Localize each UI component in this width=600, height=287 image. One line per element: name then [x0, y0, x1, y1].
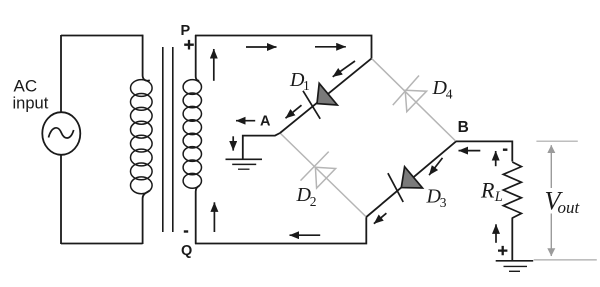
node A wire to ground: [243, 133, 280, 159]
current arrow B leftward: [459, 150, 481, 152]
terminal Q label: [181, 232, 192, 260]
current arrow up at RL bottom: [495, 224, 497, 243]
current arrow into D1: [333, 61, 355, 77]
label Vout: [545, 186, 581, 217]
wire node B to load: [456, 141, 512, 161]
svg-text:out: out: [558, 198, 581, 217]
current arrow up at RL top: [495, 151, 497, 166]
ground at load: [496, 261, 534, 272]
polarity minus at load top: [503, 148, 508, 150]
svg-text:AC: AC: [14, 77, 38, 96]
current arrow top wire 2: [315, 46, 346, 48]
svg-text:1: 1: [303, 78, 310, 93]
diode D3 arm wire: [366, 141, 456, 217]
current arrow A to ground horizontal: [236, 120, 255, 122]
polarity plus at load bottom: [498, 246, 507, 255]
label D3: [426, 186, 447, 211]
current arrow top wire 1: [246, 46, 277, 48]
current arrow up near P: [213, 49, 215, 81]
svg-text:4: 4: [446, 87, 453, 102]
current arrow bottom wire leftward: [290, 234, 321, 236]
label RL: [480, 178, 503, 205]
transformer primary winding: [131, 35, 153, 244]
svg-text:A: A: [260, 113, 271, 129]
svg-text:P: P: [181, 23, 191, 39]
svg-text:input: input: [13, 95, 49, 113]
wire primary left upper: [60, 35, 62, 113]
label D2: [296, 184, 317, 209]
Vout dimension arrow down: [550, 214, 552, 257]
current arrow D1 to A: [286, 105, 302, 118]
diode D3: [388, 167, 423, 202]
current arrow down into ground A: [232, 136, 234, 150]
terminal P label: [181, 23, 194, 50]
diode D2 arm wire (gray): [280, 133, 366, 217]
wire primary bottom: [61, 243, 143, 245]
current arrow up near Q: [213, 202, 215, 232]
diode D4 (gray): [393, 76, 427, 112]
transformer core: [163, 47, 173, 232]
label D4: [432, 77, 453, 102]
AC source: [42, 112, 80, 155]
svg-text:2: 2: [310, 194, 317, 209]
wire top P to bridge: [195, 36, 372, 59]
diode D1: [303, 83, 337, 119]
wire primary left lower: [60, 155, 62, 244]
wire resistor to ground: [511, 218, 513, 261]
current arrow D3 to bottom node: [374, 213, 387, 224]
current arrow into D3: [429, 158, 442, 175]
svg-text:L: L: [494, 189, 503, 205]
wire primary top: [61, 35, 143, 37]
Vout dimension bottom tick: [534, 259, 597, 261]
Vout dimension top tick: [536, 140, 577, 142]
label AC input: [13, 77, 49, 113]
transformer secondary winding: [183, 35, 201, 244]
svg-text:B: B: [458, 119, 469, 136]
diode D2 (gray): [301, 152, 336, 189]
diode D4 arm wire (gray): [372, 58, 457, 141]
svg-text:Q: Q: [181, 243, 192, 259]
ground at node A: [226, 159, 263, 169]
svg-text:3: 3: [440, 195, 447, 210]
Vout dimension arrow up: [550, 145, 552, 188]
diode D1 arm wire: [280, 58, 372, 133]
wire bottom Q to bridge: [195, 217, 366, 244]
label D1: [289, 69, 310, 93]
resistor RL: [503, 162, 521, 218]
svg-text:R: R: [480, 178, 495, 203]
